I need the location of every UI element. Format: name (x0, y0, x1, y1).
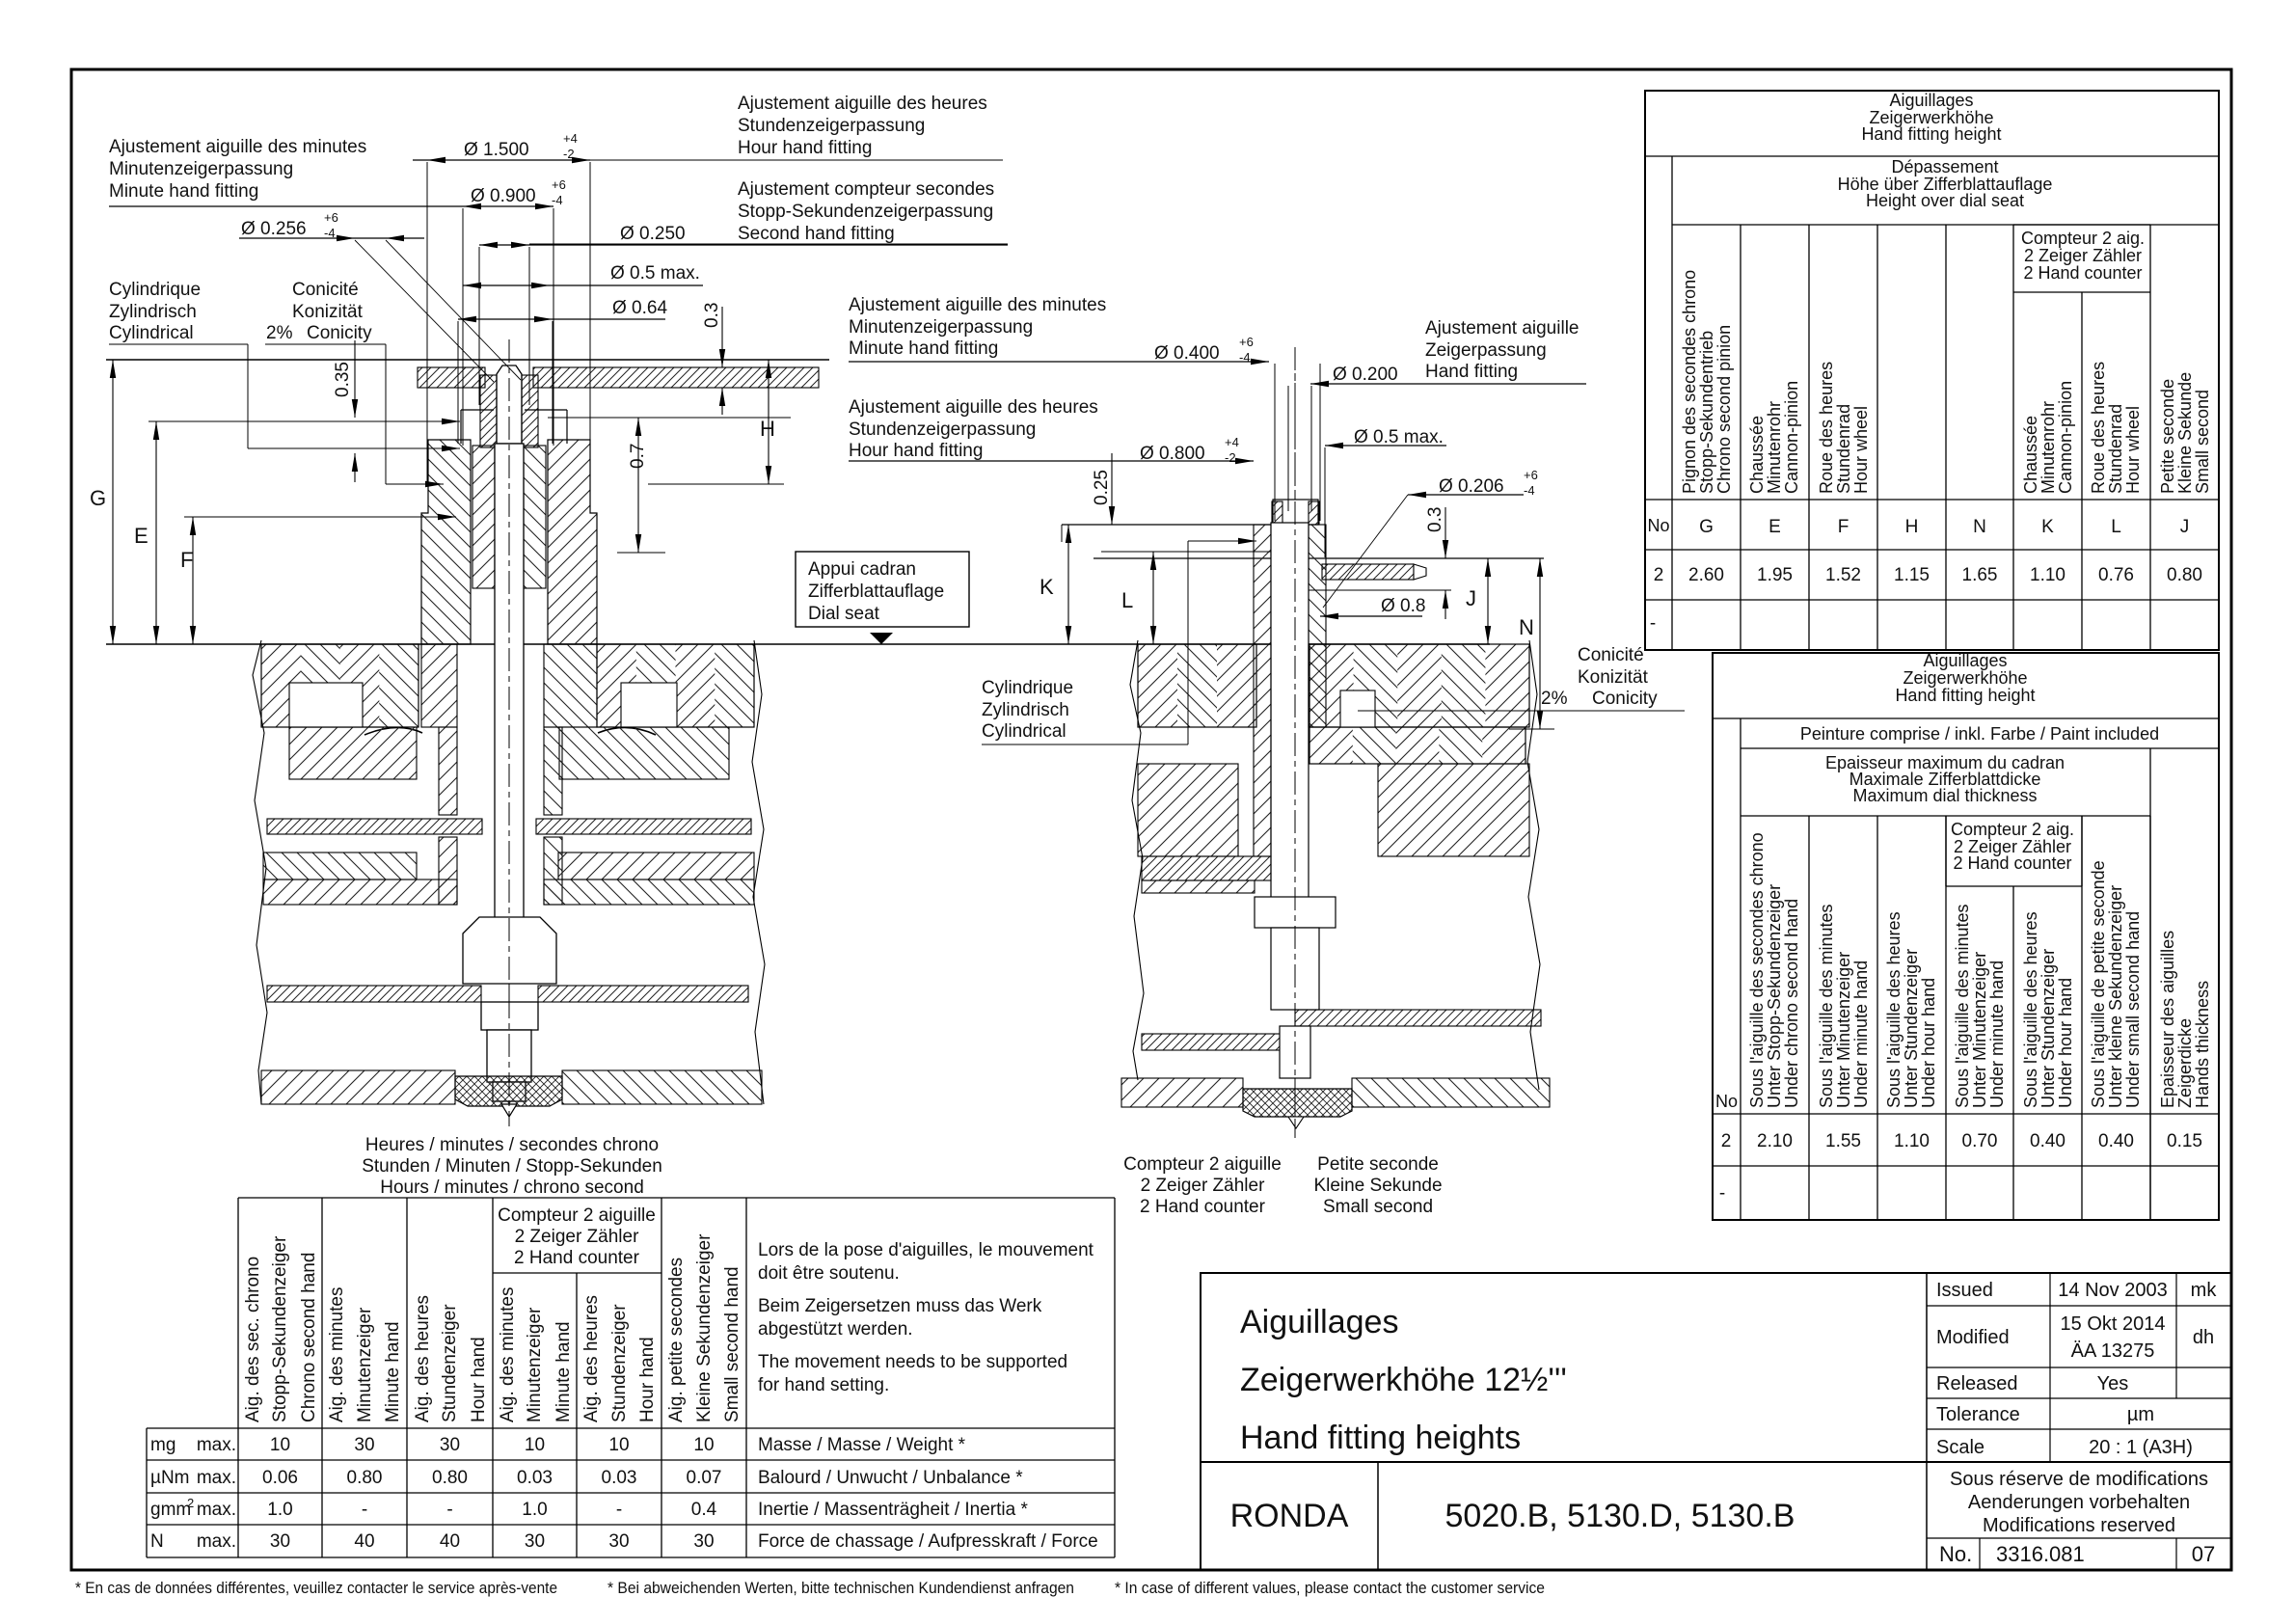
svg-text:Chaussée: Chaussée (2021, 416, 2040, 494)
svg-text:20 : 1 (A3H): 20 : 1 (A3H) (2089, 1437, 2193, 1458)
svg-text:Released: Released (1936, 1373, 2018, 1394)
svg-text:Ø 0.8: Ø 0.8 (1381, 596, 1425, 616)
svg-text:-: - (1650, 613, 1656, 634)
svg-text:K: K (1039, 575, 1054, 599)
svg-text:Aenderungen vorbehalten: Aenderungen vorbehalten (1968, 1492, 2190, 1513)
table 1 letter row (1647, 516, 2189, 537)
svg-text:40: 40 (440, 1531, 460, 1552)
svg-text:40: 40 (354, 1531, 374, 1552)
caption small second (1313, 1154, 1442, 1217)
svg-text:Hand fitting heights: Hand fitting heights (1240, 1420, 1521, 1456)
svg-text:Stundenzeigerpassung: Stundenzeigerpassung (738, 116, 925, 136)
left section chrono second pinion tube (480, 375, 538, 447)
svg-text:Ø 0.200: Ø 0.200 (1333, 365, 1398, 385)
dimension Ø 1.500 (413, 131, 590, 482)
svg-text:Balourd / Unwucht / Unbalance: Balourd / Unwucht / Unbalance * (758, 1468, 1023, 1488)
dimension Ø 0.8 (1320, 596, 1425, 619)
svg-text:Chrono second hand: Chrono second hand (299, 1253, 319, 1422)
svg-text:Minutenzeigerpassung: Minutenzeigerpassung (109, 159, 293, 179)
svg-text:Unter Minutenzeiger: Unter Minutenzeiger (1970, 952, 1989, 1108)
conicity leader diagonals (355, 240, 521, 382)
middle section centerline (1294, 347, 1296, 1138)
svg-text:Petite seconde: Petite seconde (1317, 1154, 1439, 1175)
svg-text:Stopp-Sekundentrieb: Stopp-Sekundentrieb (1697, 331, 1716, 494)
svg-text:1.0: 1.0 (522, 1500, 547, 1520)
svg-text:Stundenrad: Stundenrad (2106, 404, 2125, 494)
dimension F (180, 514, 456, 644)
svg-text:Aig. des sec. chrono: Aig. des sec. chrono (243, 1257, 263, 1422)
svg-text:10: 10 (525, 1435, 545, 1455)
svg-text:Under hour hand: Under hour hand (2056, 978, 2075, 1108)
svg-text:Unter Stundenzeiger: Unter Stundenzeiger (1902, 949, 1921, 1108)
middle section hand washer (1322, 564, 1426, 580)
svg-text:Aig. des heures: Aig. des heures (581, 1295, 602, 1422)
svg-text:Under small second hand: Under small second hand (2123, 911, 2143, 1108)
svg-text:Roue des heures: Roue des heures (2089, 362, 2108, 494)
svg-text:Ajustement aiguille des minute: Ajustement aiguille des minutes (849, 295, 1106, 315)
svg-text:Zeigerdicke: Zeigerdicke (2175, 1018, 2195, 1108)
svg-text:-4: -4 (1524, 483, 1535, 498)
svg-text:Ajustement aiguille: Ajustement aiguille (1425, 318, 1579, 338)
svg-text:Aiguillages: Aiguillages (1240, 1304, 1398, 1340)
title block RONDA logo (1230, 1498, 1349, 1534)
svg-text:Minutenzeiger: Minutenzeiger (525, 1307, 545, 1422)
left section minute hand washer (418, 367, 819, 388)
svg-text:-: - (362, 1500, 367, 1520)
svg-text:Modified: Modified (1936, 1327, 2010, 1348)
left section center arbor (495, 444, 524, 922)
svg-text:E: E (1768, 517, 1781, 537)
svg-text:2.60: 2.60 (1688, 565, 1724, 585)
dimension J (1466, 558, 1491, 644)
svg-text:10: 10 (270, 1435, 290, 1455)
svg-text:max.: max. (197, 1500, 236, 1520)
svg-text:mk: mk (2191, 1280, 2218, 1301)
svg-text:0.06: 0.06 (262, 1468, 298, 1488)
svg-text:30: 30 (270, 1531, 290, 1552)
svg-text:Cylindrical: Cylindrical (109, 323, 194, 343)
svg-text:Aiguillages: Aiguillages (1923, 651, 2007, 670)
middle section jewel (1243, 1089, 1352, 1117)
svg-text:Kleine Sekunde: Kleine Sekunde (2175, 372, 2195, 494)
svg-text:2 Hand counter: 2 Hand counter (514, 1248, 640, 1268)
svg-text:1.95: 1.95 (1757, 565, 1793, 585)
svg-text:Height over dial seat: Height over dial seat (1866, 191, 2024, 210)
svg-text:Stopp-Sekundenzeigerpassung: Stopp-Sekundenzeigerpassung (738, 202, 993, 222)
svg-text:Minutenrohr: Minutenrohr (1765, 401, 1784, 494)
svg-text:Sous réserve de modifications: Sous réserve de modifications (1950, 1469, 2208, 1490)
dimension 0.7 (548, 418, 791, 553)
dimension 0.25 (1062, 453, 1115, 542)
svg-text:Aig. des minutes: Aig. des minutes (498, 1287, 518, 1422)
svg-text:1.55: 1.55 (1825, 1131, 1861, 1151)
table 1 hand fitting height (height over dial seat) (1645, 91, 2219, 650)
dimension Ø 0.5 max left (463, 263, 703, 288)
svg-text:Hour hand: Hour hand (637, 1337, 658, 1422)
svg-text:Unter Stundenzeiger: Unter Stundenzeiger (2038, 949, 2058, 1108)
middle section torn edges (1130, 640, 1540, 1090)
svg-text:Hour hand fitting: Hour hand fitting (738, 138, 872, 158)
svg-text:N: N (1519, 615, 1534, 639)
svg-text:30: 30 (440, 1435, 460, 1455)
svg-text:+4: +4 (563, 131, 578, 146)
title block revision table (1927, 1273, 2231, 1462)
footnote English (1115, 1579, 1545, 1597)
table 2 values row (1719, 1131, 2202, 1204)
svg-text:Kleine Sekundenzeiger: Kleine Sekundenzeiger (694, 1233, 715, 1422)
svg-text:Minutenzeigerpassung: Minutenzeigerpassung (849, 317, 1033, 338)
left section setting wheel layer (289, 410, 729, 905)
table 2 rotated column headers (1715, 832, 2212, 1111)
svg-text:F: F (180, 548, 193, 572)
svg-text:Compteur 2 aig.: Compteur 2 aig. (1951, 820, 2074, 839)
svg-text:No.: No. (1939, 1542, 1972, 1566)
svg-text:30: 30 (693, 1531, 714, 1552)
table 3 hand weights and forces (147, 1198, 1115, 1557)
svg-text:Cylindrique: Cylindrique (109, 280, 201, 300)
svg-text:1.10: 1.10 (1894, 1131, 1930, 1151)
svg-text:max.: max. (197, 1435, 236, 1455)
svg-text:2 Hand counter: 2 Hand counter (1953, 853, 2071, 873)
svg-text:Minute hand fitting: Minute hand fitting (849, 338, 998, 359)
svg-text:Conicity: Conicity (307, 323, 372, 343)
svg-text:1.15: 1.15 (1894, 565, 1930, 585)
dimension 0.3 left (702, 303, 725, 415)
caption 2 hand counter (1123, 1154, 1282, 1217)
svg-text:Conicity: Conicity (1592, 689, 1658, 709)
svg-text:The movement needs to be suppo: The movement needs to be supported (758, 1352, 1067, 1372)
svg-text:2%: 2% (266, 323, 293, 343)
svg-text:1.52: 1.52 (1825, 565, 1861, 585)
middle section counter wheel (1142, 1034, 1295, 1050)
svg-text:L: L (1121, 588, 1133, 612)
svg-text:µm: µm (2127, 1404, 2154, 1425)
svg-text:Sous l'aiguille de petite seco: Sous l'aiguille de petite seconde (2089, 860, 2108, 1108)
dimension Ø 0.900 (109, 177, 566, 446)
label cylindrical middle (982, 538, 1256, 744)
dial seat line (106, 643, 1490, 645)
svg-text:Under minute hand: Under minute hand (1987, 961, 2007, 1108)
svg-text:Stundenrad: Stundenrad (1834, 404, 1853, 494)
svg-text:Sous l'aiguille des minutes: Sous l'aiguille des minutes (1817, 904, 1836, 1108)
svg-text:Heures / minutes / secondes ch: Heures / minutes / secondes chrono (365, 1135, 659, 1155)
svg-text:0.03: 0.03 (517, 1468, 553, 1488)
table 1 values row (1650, 565, 2202, 634)
svg-text:N: N (150, 1531, 164, 1552)
svg-text:J: J (1466, 586, 1476, 610)
svg-text:Ajustement aiguille des minute: Ajustement aiguille des minutes (109, 137, 366, 157)
svg-text:µNm: µNm (150, 1468, 190, 1488)
svg-text:Zylindrisch: Zylindrisch (109, 302, 197, 322)
svg-text:+6: +6 (552, 177, 566, 192)
svg-text:Zeigerwerkhöhe: Zeigerwerkhöhe (1903, 668, 2027, 688)
svg-text:-: - (446, 1500, 452, 1520)
svg-text:3316.081: 3316.081 (1996, 1542, 2085, 1566)
svg-text:-: - (616, 1500, 622, 1520)
svg-text:Hours / minutes / chrono secon: Hours / minutes / chrono second (380, 1177, 644, 1198)
middle section hour pipe (1254, 525, 1326, 644)
dimension Ø 0.400 (849, 335, 1320, 521)
svg-text:1.10: 1.10 (2030, 565, 2065, 585)
svg-text:Minute hand: Minute hand (383, 1321, 403, 1422)
svg-text:Tolerance: Tolerance (1936, 1404, 2020, 1425)
title block calibre numbers (1445, 1498, 1795, 1534)
svg-text:No: No (1715, 1092, 1738, 1111)
svg-text:Force de chassage / Aufpresskr: Force de chassage / Aufpresskraft / Forc… (758, 1531, 1098, 1552)
svg-text:Small second: Small second (2193, 390, 2212, 494)
svg-text:0.35: 0.35 (333, 362, 353, 397)
svg-text:Lors de la pose d'aiguilles, l: Lors de la pose d'aiguilles, le mouvemen… (758, 1240, 1094, 1260)
title block drawing title (1240, 1304, 1567, 1456)
svg-text:for hand setting.: for hand setting. (758, 1375, 889, 1395)
middle section hand seat lines (1062, 525, 1544, 558)
svg-text:Petite seconde: Petite seconde (2158, 379, 2177, 494)
svg-text:Konizität: Konizität (1578, 667, 1649, 688)
svg-text:Issued: Issued (1936, 1280, 1993, 1301)
svg-text:15 Okt 2014: 15 Okt 2014 (2061, 1313, 2166, 1335)
svg-text:Ø 0.64: Ø 0.64 (612, 298, 667, 318)
table 3 row labels (150, 1435, 236, 1552)
svg-text:Chaussée: Chaussée (1747, 416, 1767, 494)
svg-text:* Bei abweichenden Werten, bit: * Bei abweichenden Werten, bitte technis… (607, 1579, 1074, 1597)
svg-text:dh: dh (2193, 1327, 2214, 1348)
dimension K (1039, 525, 1071, 644)
dimension Ø 0.200 (1288, 365, 1586, 511)
left section chrono wheel bar (267, 986, 748, 1002)
svg-text:2 Zeiger Zähler: 2 Zeiger Zähler (2024, 246, 2142, 265)
svg-text:Maximum dial thickness: Maximum dial thickness (1852, 786, 2037, 805)
svg-text:Sous l'aiguille des minutes: Sous l'aiguille des minutes (1953, 904, 1972, 1108)
svg-text:gmm: gmm (150, 1500, 191, 1520)
svg-text:* En cas de données différente: * En cas de données différentes, veuille… (75, 1579, 557, 1597)
svg-text:30: 30 (525, 1531, 545, 1552)
svg-text:max.: max. (197, 1468, 236, 1488)
left section jewel setting (455, 1076, 562, 1106)
svg-text:-2: -2 (1225, 450, 1236, 465)
svg-text:+6: +6 (1239, 335, 1254, 349)
svg-text:Conicité: Conicité (292, 280, 359, 300)
svg-text:Dépassement: Dépassement (1891, 157, 1998, 176)
table 2 hand fitting height (maximum dial thickness) (1713, 651, 2219, 1220)
svg-text:Sous l'aiguille des heures: Sous l'aiguille des heures (1884, 911, 1903, 1108)
svg-text:Hour hand fitting: Hour hand fitting (849, 441, 983, 461)
svg-text:Stundenzeiger: Stundenzeiger (609, 1304, 630, 1422)
svg-text:5020.B, 5130.D, 5130.B: 5020.B, 5130.D, 5130.B (1445, 1498, 1795, 1534)
svg-text:Ajustement aiguille des heures: Ajustement aiguille des heures (849, 397, 1098, 418)
svg-text:+4: +4 (1225, 435, 1239, 449)
svg-text:doit être soutenu.: doit être soutenu. (758, 1263, 900, 1284)
dimension L (1101, 552, 1271, 644)
middle section pipe below dial (1254, 644, 1326, 856)
svg-text:Small second hand: Small second hand (722, 1266, 742, 1422)
svg-text:Roue des heures: Roue des heures (1817, 362, 1836, 494)
middle section cannon pinion stub (1272, 500, 1319, 525)
svg-text:Compteur 2 aig.: Compteur 2 aig. (2021, 229, 2145, 248)
svg-text:Unter kleine Sekundenzeiger: Unter kleine Sekundenzeiger (2106, 885, 2125, 1108)
dimension H (648, 360, 784, 484)
svg-text:E: E (134, 524, 148, 548)
svg-text:Epaisseur des aiguilles: Epaisseur des aiguilles (2158, 931, 2177, 1108)
svg-text:2: 2 (1654, 565, 1664, 585)
svg-text:Minutenzeiger: Minutenzeiger (355, 1307, 375, 1422)
svg-text:Stundenzeigerpassung: Stundenzeigerpassung (849, 420, 1036, 440)
svg-text:No: No (1647, 516, 1669, 535)
svg-text:N: N (1973, 517, 1986, 537)
svg-text:-4: -4 (1239, 350, 1251, 365)
svg-text:+6: +6 (324, 210, 338, 225)
svg-text:Small second: Small second (1323, 1197, 1433, 1217)
svg-text:Minute hand: Minute hand (553, 1321, 574, 1422)
label hour hand fitting top-right (590, 94, 1003, 160)
svg-text:1.65: 1.65 (1962, 565, 1998, 585)
svg-text:K: K (2041, 517, 2054, 537)
svg-text:Ø 0.900: Ø 0.900 (471, 186, 536, 206)
svg-text:Masse / Masse / Weight *: Masse / Masse / Weight * (758, 1435, 966, 1455)
svg-text:mg: mg (150, 1435, 175, 1455)
table 3 values (262, 1435, 721, 1552)
dimension Ø 0.250 (479, 224, 1008, 405)
middle section arbor bottom (1280, 1026, 1310, 1078)
middle section left block (1138, 764, 1271, 893)
label conicity left (265, 280, 444, 487)
svg-text:Modifications reserved: Modifications reserved (1983, 1515, 2175, 1536)
svg-text:Kleine Sekunde: Kleine Sekunde (1313, 1176, 1442, 1196)
centerline overlay middle (1294, 347, 1296, 1138)
svg-text:Aig. des minutes: Aig. des minutes (327, 1287, 347, 1422)
svg-text:Zylindrisch: Zylindrisch (982, 700, 1069, 720)
svg-text:G: G (90, 486, 106, 510)
table 3 rotated column headers (243, 1233, 742, 1422)
svg-text:0.76: 0.76 (2098, 565, 2134, 585)
svg-text:30: 30 (354, 1435, 374, 1455)
svg-text:Yes: Yes (2097, 1373, 2129, 1394)
svg-text:0.40: 0.40 (2030, 1131, 2065, 1151)
middle section pivot tip (1288, 1117, 1304, 1128)
svg-text:Unter Minutenzeiger: Unter Minutenzeiger (1834, 952, 1853, 1108)
svg-text:Ajustement aiguille des heure: Ajustement aiguille des heures (738, 94, 987, 114)
svg-text:H: H (1905, 517, 1919, 537)
svg-text:abgestützt werden.: abgestützt werden. (758, 1319, 913, 1340)
svg-text:Minutenrohr: Minutenrohr (2038, 401, 2058, 494)
svg-text:RONDA: RONDA (1230, 1498, 1349, 1534)
svg-text:Ø 0.5 max.: Ø 0.5 max. (1354, 427, 1444, 447)
svg-text:Sous l'aiguille des heures: Sous l'aiguille des heures (2021, 911, 2040, 1108)
svg-text:10: 10 (693, 1435, 714, 1455)
svg-text:Cylindrical: Cylindrical (982, 721, 1066, 742)
svg-text:Appui cadran: Appui cadran (808, 559, 916, 580)
svg-text:2 Zeiger Zähler: 2 Zeiger Zähler (1141, 1176, 1266, 1196)
label minute hand fitting middle (849, 295, 1106, 359)
title block document number (1939, 1538, 2215, 1570)
title block modifications note (1927, 1469, 2231, 1538)
svg-text:max.: max. (197, 1531, 236, 1552)
svg-text:Zifferblattauflage: Zifferblattauflage (808, 582, 944, 602)
dimension Ø 0.64 (458, 298, 667, 444)
svg-text:Konizität: Konizität (292, 302, 364, 322)
label second hand fitting (529, 179, 1008, 244)
left section lower plate layers (263, 853, 754, 905)
svg-text:Compteur 2 aiguille: Compteur 2 aiguille (1123, 1154, 1282, 1175)
svg-text:Cannon-pinion: Cannon-pinion (1782, 381, 1801, 494)
dimension 0.3 middle (1309, 507, 1451, 619)
svg-text:Stopp-Sekundenzeiger: Stopp-Sekundenzeiger (270, 1235, 290, 1422)
dimension N (1509, 558, 1554, 729)
svg-text:Hand fitting: Hand fitting (1425, 362, 1518, 382)
svg-text:Under hour hand: Under hour hand (1919, 978, 1938, 1108)
svg-text:2: 2 (1721, 1131, 1732, 1151)
svg-text:Dial seat: Dial seat (808, 604, 880, 624)
dimension G (90, 360, 116, 644)
label conicity middle (1358, 645, 1685, 711)
svg-text:Ajustement compteur secondes: Ajustement compteur secondes (738, 179, 994, 200)
middle section lower steps (1255, 897, 1336, 1010)
label hour hand fitting middle (849, 397, 1098, 461)
svg-text:Aig. petite secondes: Aig. petite secondes (666, 1258, 687, 1422)
svg-text:Second hand fitting: Second hand fitting (738, 224, 895, 244)
svg-text:Stundenzeiger: Stundenzeiger (440, 1304, 460, 1422)
dimension Ø 0.800 (849, 435, 1254, 465)
svg-text:Stunden / Minuten / Stopp-Seku: Stunden / Minuten / Stopp-Sekunden (362, 1156, 662, 1177)
dimension Ø 0.5 max middle (1325, 427, 1446, 557)
svg-text:Unter Stopp-Sekundenzeiger: Unter Stopp-Sekundenzeiger (1765, 884, 1784, 1108)
middle section small second wheel (1295, 1010, 1541, 1026)
svg-text:Hand fitting height: Hand fitting height (1861, 124, 2001, 144)
svg-text:0.25: 0.25 (1092, 470, 1112, 505)
left section lower arbor steps (481, 1002, 538, 1101)
svg-text:Under chrono second hand: Under chrono second hand (1782, 899, 1801, 1108)
caption hours minutes chrono second (362, 1135, 662, 1198)
svg-text:Beim Zeigersetzen muss das Wer: Beim Zeigersetzen muss das Werk (758, 1296, 1042, 1316)
svg-text:Ø 0.400: Ø 0.400 (1154, 343, 1220, 364)
left section hour wheel pipe (421, 440, 597, 644)
title block outline (1201, 1273, 2231, 1570)
svg-text:Zeigerpassung: Zeigerpassung (1425, 340, 1547, 361)
svg-text:0.07: 0.07 (687, 1468, 722, 1488)
table 1 rotated column headers (1680, 270, 2212, 494)
table 3 right notes column (758, 1240, 1098, 1552)
svg-text:J: J (2180, 517, 2190, 537)
svg-text:2 Zeiger Zähler: 2 Zeiger Zähler (515, 1227, 640, 1247)
dimension 0.35 (333, 340, 358, 482)
label cylindrical left (109, 280, 460, 451)
svg-text:Hour hand: Hour hand (469, 1337, 489, 1422)
svg-text:1.0: 1.0 (267, 1500, 292, 1520)
middle section bottom plate (1121, 1078, 1550, 1107)
svg-text:Ø 0.256: Ø 0.256 (241, 219, 307, 239)
svg-text:0.80: 0.80 (347, 1468, 383, 1488)
left section pivot tip (501, 1104, 517, 1117)
svg-text:Peinture comprise / inkl. Farb: Peinture comprise / inkl. Farbe / Paint … (1800, 724, 2159, 744)
svg-text:Ø 0.250: Ø 0.250 (620, 224, 686, 244)
svg-text:Aig. des heures: Aig. des heures (413, 1295, 433, 1422)
svg-text:0.70: 0.70 (1962, 1131, 1998, 1151)
footnote French (75, 1579, 557, 1597)
svg-text:G: G (1699, 517, 1714, 537)
svg-text:Hand fitting height: Hand fitting height (1895, 686, 2035, 705)
left section upper plate (261, 644, 754, 735)
middle section right block (1378, 764, 1529, 856)
svg-text:* In case of different values,: * In case of different values, please co… (1115, 1579, 1545, 1597)
svg-text:30: 30 (608, 1531, 629, 1552)
svg-text:Ø 0.5 max.: Ø 0.5 max. (610, 263, 700, 284)
svg-text:0.03: 0.03 (602, 1468, 637, 1488)
svg-text:Conicité: Conicité (1578, 645, 1644, 665)
left section cannon pinion tube (472, 446, 546, 588)
svg-text:H: H (760, 417, 775, 441)
svg-text:Compteur 2 aiguille: Compteur 2 aiguille (498, 1205, 656, 1226)
appui cadran dial seat box (796, 552, 969, 644)
svg-text:Zeigerwerkhöhe 12½''': Zeigerwerkhöhe 12½''' (1240, 1362, 1567, 1398)
